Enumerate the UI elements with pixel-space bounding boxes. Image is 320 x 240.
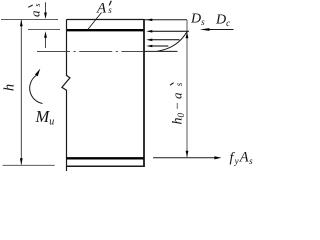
svg-text:s: s xyxy=(108,5,112,15)
a's lower extension line xyxy=(28,29,60,31)
Dc force arrow xyxy=(208,29,234,31)
fyAs tension force arrow xyxy=(153,157,216,159)
stress diagram top line xyxy=(145,19,188,21)
beam top edge xyxy=(67,19,145,21)
svg-text:s: s xyxy=(174,82,184,86)
neutral axis dash-dot centerline xyxy=(37,51,144,53)
beam bottom edge xyxy=(67,165,145,167)
label a's (rotated) xyxy=(28,10,43,17)
down arrowhead of h0-a's xyxy=(186,151,189,158)
stress arrow 4 xyxy=(152,45,169,47)
stress arrow 2 (Ds level) xyxy=(152,30,190,32)
A's leader line xyxy=(88,13,102,30)
stress diagram bottom line xyxy=(145,50,178,52)
tension steel line As (thick) xyxy=(67,157,145,159)
up arrowhead of h0-a's xyxy=(186,32,189,39)
svg-text:h0 − a: h0 − a xyxy=(170,92,187,124)
beam right edge xyxy=(143,19,145,167)
svg-text:A: A xyxy=(96,1,107,17)
stress curve (parabola) xyxy=(158,32,188,52)
svg-text:a: a xyxy=(28,10,43,17)
label h0-a's (rotated) xyxy=(170,92,187,124)
beam left edge with break xyxy=(62,19,70,171)
stress arrow 1 (top) xyxy=(146,19,152,22)
stress arrow 3 xyxy=(152,39,180,41)
svg-text:h: h xyxy=(2,84,18,91)
bottom extension line xyxy=(3,164,55,166)
compression steel line A's (thick) xyxy=(67,29,145,31)
moment arc Mu xyxy=(30,75,43,103)
h0-a's dimension line vertical xyxy=(186,20,188,157)
top extension line (left of beam, h/a's datum) xyxy=(1,18,58,20)
h dimension line xyxy=(20,20,22,165)
a's dimension arrows (left top) xyxy=(45,2,47,17)
